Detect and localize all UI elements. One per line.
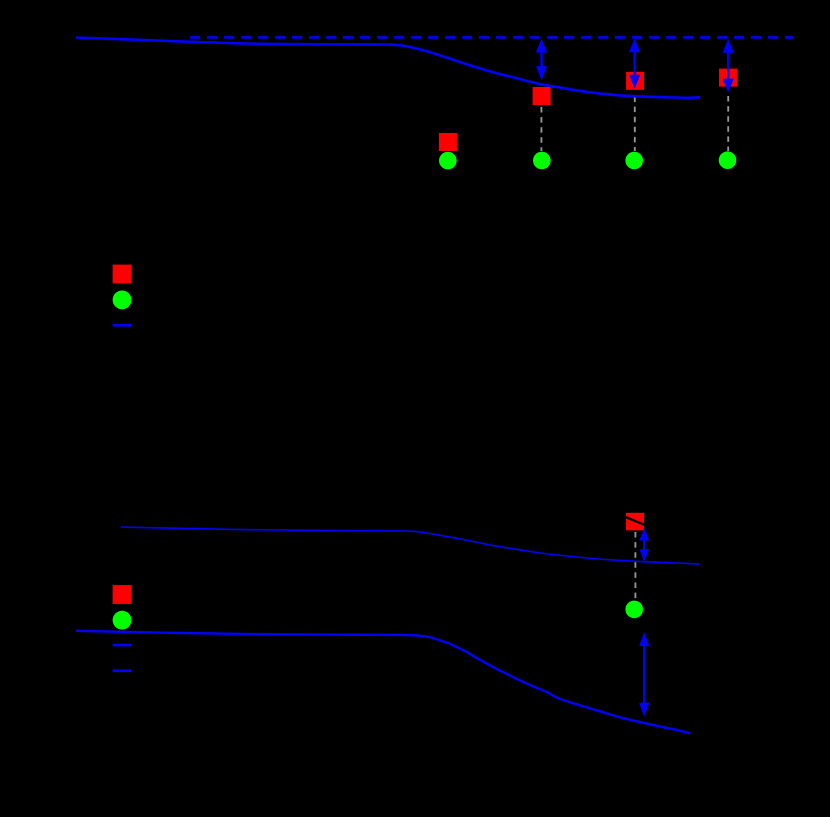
long double arrow (bottom panel) <box>639 632 649 717</box>
green circle marker 4 (top panel) <box>719 151 737 169</box>
gray dashed connector at x=728 <box>727 96 729 151</box>
bottom panel: upper thin blue curve <box>121 527 699 564</box>
double arrow 2 (top panel) <box>629 38 640 88</box>
bottom legend: blue dash sample 1 <box>113 644 132 647</box>
top legend: red square sample <box>113 265 132 284</box>
bottom panel: gray dashed connector at x=635 <box>634 532 636 600</box>
red square marker 4 (top panel) <box>719 69 737 87</box>
gray dashed connector at x=635 <box>634 97 636 152</box>
green circle marker 3 (top panel) <box>625 152 643 170</box>
top legend: blue line sample <box>113 324 132 327</box>
bottom legend: green circle sample <box>113 611 132 630</box>
double arrow 1 (top panel) <box>536 39 547 81</box>
red square marker 1 (top panel) <box>439 133 457 151</box>
bottom legend: red square sample <box>113 585 132 604</box>
green circle marker 1 (top panel) <box>439 152 457 170</box>
small double arrow (bottom panel) <box>639 528 649 562</box>
top panel: solid blue potential curve <box>76 38 700 98</box>
gray dashed connector at x=541 <box>540 107 542 151</box>
double arrow 3 (top panel) <box>723 39 734 93</box>
green circle marker 2 (top panel) <box>533 152 551 170</box>
top panel: dashed blue asymptote line <box>190 36 793 39</box>
bottom panel: green circle marker <box>625 601 643 619</box>
bottom panel: red square marker with black slash <box>626 513 644 531</box>
red square marker 2 (top panel) <box>533 87 551 105</box>
red square marker 3 (top panel) <box>626 72 644 90</box>
bottom panel: lower thick blue curve <box>76 631 690 734</box>
bottom legend: blue dash sample 2 <box>113 669 132 672</box>
top legend: green circle sample <box>113 291 132 310</box>
